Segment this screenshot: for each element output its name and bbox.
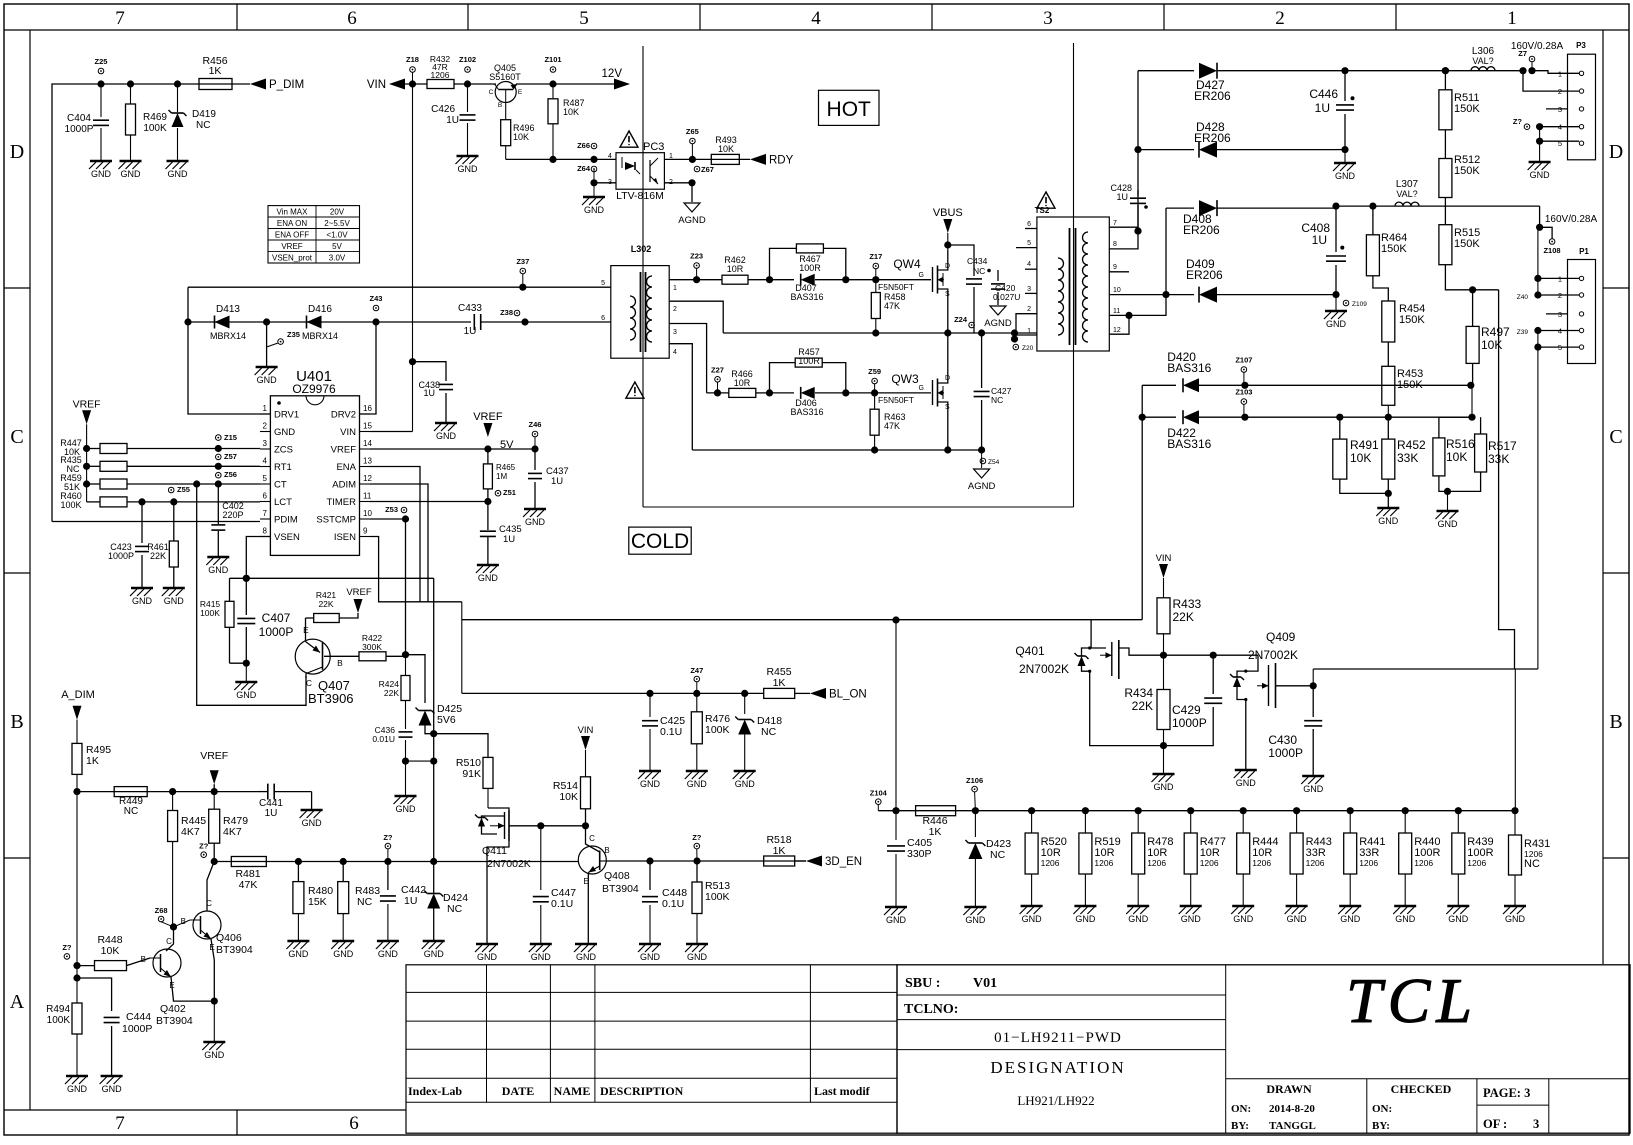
svg-text:5V: 5V <box>332 242 342 251</box>
svg-text:1K: 1K <box>929 826 942 838</box>
svg-text:5: 5 <box>601 280 605 287</box>
svg-text:VREF: VREF <box>331 445 357 456</box>
svg-text:2N7002K: 2N7002K <box>1019 662 1069 676</box>
power VBUS arrow <box>943 219 952 233</box>
warning triangle TS2 <box>1037 192 1055 208</box>
pin 12 ADIM <box>360 483 371 485</box>
svg-text:A: A <box>10 991 25 1013</box>
wire VIN down to U401 pin15 <box>412 84 414 432</box>
ground C447 <box>530 943 552 946</box>
svg-text:ER206: ER206 <box>1183 223 1220 237</box>
wire Q408 base rail <box>606 860 806 862</box>
svg-text:10K: 10K <box>559 791 578 803</box>
svg-text:3: 3 <box>673 329 677 336</box>
svg-text:Z106: Z106 <box>966 776 983 785</box>
transistor Q402 BT3904 <box>153 949 181 977</box>
wire Q407 base to R422 <box>324 655 359 657</box>
pin 9 ISEN <box>360 536 371 538</box>
svg-text:B: B <box>10 711 23 733</box>
svg-text:NC: NC <box>357 896 373 908</box>
svg-text:4K7: 4K7 <box>181 826 200 838</box>
svg-text:GND: GND <box>1335 171 1356 181</box>
resistor R454 <box>1382 301 1395 342</box>
svg-text:4: 4 <box>263 457 268 466</box>
svg-text:AGND: AGND <box>678 215 706 226</box>
svg-text:22K: 22K <box>1132 699 1153 713</box>
svg-text:Z7: Z7 <box>1518 49 1527 58</box>
svg-text:C: C <box>10 426 23 448</box>
node Z107 <box>1241 367 1247 373</box>
net 3D_EN <box>806 856 822 867</box>
svg-text:VAL?: VAL? <box>1396 189 1417 199</box>
ground R461 <box>163 587 185 590</box>
border left label strip <box>29 30 31 1110</box>
svg-text:GND: GND <box>1233 914 1254 924</box>
capacitor C442 <box>387 862 389 891</box>
resistor R516 <box>1439 417 1472 438</box>
wire Q401 drain rail to Q409 gate <box>1164 654 1214 656</box>
capacitor C433 <box>473 314 475 330</box>
svg-text:GND: GND <box>478 573 499 583</box>
svg-text:4: 4 <box>673 349 677 356</box>
svg-text:3.0V: 3.0V <box>329 253 346 262</box>
svg-text:BAS316: BAS316 <box>1167 437 1211 451</box>
node Z108 <box>1549 239 1555 245</box>
wire ISEN pin9 <box>370 537 462 602</box>
svg-text:E: E <box>518 89 523 96</box>
svg-text:MBRX14: MBRX14 <box>302 331 338 341</box>
svg-text:1U: 1U <box>265 808 278 819</box>
svg-text:LCT: LCT <box>274 497 292 508</box>
svg-text:6: 6 <box>1027 221 1031 228</box>
capacitor C446 <box>1341 67 1348 74</box>
svg-text:SSTCMP: SSTCMP <box>316 515 356 526</box>
node Z47 <box>694 676 700 682</box>
svg-text:VBUS: VBUS <box>933 207 963 219</box>
transistor Q408 BT3904 <box>578 846 606 874</box>
wire VREF ladder vertical <box>86 424 88 502</box>
svg-text:300K: 300K <box>362 642 382 652</box>
svg-text:D413: D413 <box>216 304 240 315</box>
svg-text:150K: 150K <box>1454 165 1480 177</box>
wire TS2 pin11 out <box>1129 295 1166 316</box>
svg-text:14: 14 <box>363 439 372 448</box>
wire 160V second rail <box>1336 205 1540 207</box>
node Z59 <box>872 378 878 384</box>
svg-text:GND: GND <box>274 427 295 438</box>
wire CT to Q407 collector <box>197 484 306 705</box>
wire resonant rail <box>188 321 471 323</box>
svg-text:C407: C407 <box>262 611 291 625</box>
svg-text:R494: R494 <box>46 1004 70 1015</box>
analog ground C420 <box>990 306 1006 315</box>
connector P3 <box>1568 54 1596 160</box>
svg-text:1000P: 1000P <box>259 625 294 639</box>
svg-text:100K: 100K <box>200 608 220 618</box>
svg-text:5: 5 <box>579 8 589 29</box>
wire QW3 source rail <box>692 449 981 451</box>
resistor R478 <box>1137 811 1139 833</box>
svg-text:1: 1 <box>1507 8 1517 29</box>
inner frame bottom <box>30 1109 406 1111</box>
svg-text:22K: 22K <box>318 599 333 609</box>
resistor R456 <box>199 79 232 90</box>
node Z64 <box>591 166 597 172</box>
wire to R466 <box>707 392 729 394</box>
ground C430 <box>1302 775 1324 778</box>
resistor R497 <box>1472 290 1474 327</box>
svg-text:VIN: VIN <box>1156 553 1172 564</box>
wire Q401 source to bottom rail <box>1090 671 1164 745</box>
svg-text:NC: NC <box>973 266 985 276</box>
node Z24 <box>969 322 975 328</box>
capacitor C429 <box>1212 655 1214 694</box>
svg-text:BY:: BY: <box>1231 1120 1249 1132</box>
transformer TS2 <box>1037 217 1109 351</box>
wire PC3 pin1 to RDY <box>664 158 750 160</box>
HOT label box <box>819 90 880 125</box>
svg-text:1K: 1K <box>209 65 222 77</box>
svg-text:2: 2 <box>673 306 677 313</box>
svg-text:Z53: Z53 <box>385 505 398 514</box>
svg-text:0.027U: 0.027U <box>993 292 1020 302</box>
ground C404 <box>90 160 112 163</box>
wire C446 bottom rail <box>1336 149 1345 151</box>
wire OVP to Q409 drain route <box>1499 290 1515 669</box>
svg-text:GND: GND <box>378 949 399 959</box>
svg-text:DRAWN: DRAWN <box>1266 1082 1312 1096</box>
svg-text:1K: 1K <box>773 677 786 689</box>
svg-text:2: 2 <box>263 422 268 431</box>
svg-text:TS2: TS2 <box>1035 206 1050 215</box>
svg-text:11: 11 <box>363 492 372 501</box>
svg-text:6: 6 <box>601 315 605 322</box>
pin TS2-2 <box>1016 314 1037 333</box>
svg-text:10R: 10R <box>727 264 744 274</box>
svg-text:Z67: Z67 <box>701 165 714 174</box>
wire P3 pin1 <box>1532 71 1579 74</box>
pin TS2-10 <box>1109 294 1166 296</box>
pin 1 DRV1 <box>260 413 270 415</box>
svg-text:Z20: Z20 <box>1022 345 1034 352</box>
ground Z35 <box>256 366 278 369</box>
svg-text:B: B <box>337 658 343 668</box>
ground C442 <box>377 940 399 943</box>
ground C446 <box>1344 150 1346 162</box>
wire Q411 source down <box>487 841 509 943</box>
svg-text:NC: NC <box>991 395 1003 405</box>
svg-text:AGND: AGND <box>968 481 996 492</box>
svg-text:8: 8 <box>263 527 268 536</box>
svg-text:VREF: VREF <box>346 587 372 598</box>
wire D408 vertical <box>1165 208 1167 295</box>
ground Q401 R434 C429 <box>1163 746 1165 773</box>
svg-text:VREF: VREF <box>73 398 101 410</box>
svg-text:160V/0.28A: 160V/0.28A <box>1545 214 1598 225</box>
border bottom label strip line <box>4 1109 406 1111</box>
resistor R463 <box>874 393 876 409</box>
pin 7 PDIM <box>260 518 270 520</box>
diode D406 BAS316 <box>770 392 794 394</box>
svg-text:Z104: Z104 <box>870 789 888 798</box>
ground Q408 <box>575 943 597 946</box>
svg-text:D: D <box>10 141 24 163</box>
capacitor C438 <box>409 358 416 365</box>
svg-text:Z108: Z108 <box>1543 246 1560 255</box>
svg-text:4K7: 4K7 <box>223 826 242 838</box>
svg-text:7: 7 <box>115 1113 125 1134</box>
wire R445 to Q406 base <box>172 842 174 927</box>
wire Q402 emitter join <box>171 977 214 1001</box>
power VREF 5V arrow <box>483 423 492 437</box>
svg-text:1206: 1206 <box>1306 858 1325 868</box>
svg-text:GND: GND <box>477 952 498 962</box>
net P_DIM <box>250 79 266 90</box>
svg-text:12: 12 <box>1113 327 1121 334</box>
svg-text:1U: 1U <box>551 476 563 487</box>
wire D420 to R453 top <box>1245 384 1471 386</box>
wire ENA pin13 <box>370 467 420 602</box>
svg-text:SBU :: SBU : <box>905 976 940 991</box>
resistor R480 <box>297 862 299 882</box>
svg-text:R491: R491 <box>1350 438 1379 452</box>
transistor Q405 <box>495 82 516 103</box>
svg-text:Vin MAX: Vin MAX <box>277 208 309 217</box>
svg-text:Z107: Z107 <box>1235 356 1252 365</box>
svg-text:GND: GND <box>1378 516 1399 526</box>
wire P1 pin5 <box>1538 346 1579 348</box>
ground R516 <box>1437 510 1459 513</box>
ground R452 <box>1377 507 1399 510</box>
svg-text:GND: GND <box>396 804 417 814</box>
node Z68 <box>158 916 164 922</box>
isolation line through TS2 <box>1073 43 1075 507</box>
wire L302 pin5 rail <box>188 286 611 288</box>
svg-text:ENA OFF: ENA OFF <box>275 231 309 240</box>
svg-text:15K: 15K <box>308 896 327 908</box>
zener D425 5V6 <box>406 655 426 703</box>
row dividers right <box>1603 287 1629 289</box>
svg-text:Z55: Z55 <box>177 485 190 494</box>
resistor R431 <box>1514 811 1516 835</box>
node Z37 <box>520 268 526 274</box>
ground P3 <box>1529 161 1551 164</box>
wire R432 to Q405 <box>454 83 496 85</box>
svg-text:VAL?: VAL? <box>1472 56 1493 66</box>
svg-text:1U: 1U <box>404 895 417 907</box>
capacitor C437 <box>534 449 536 470</box>
capacitor C426 <box>467 84 469 112</box>
resistor R496 <box>505 104 507 120</box>
node Z27 <box>715 377 721 383</box>
svg-text:S5160T: S5160T <box>489 72 521 82</box>
capacitor C434 <box>948 245 974 276</box>
wire A_DIM lower vertical <box>76 792 78 1003</box>
svg-text:P1: P1 <box>1579 247 1589 256</box>
svg-text:0.01U: 0.01U <box>372 734 395 744</box>
capacitor C402 <box>217 484 219 524</box>
ground R494 <box>66 1075 88 1078</box>
svg-text:Q409: Q409 <box>1266 630 1296 644</box>
pin 15 VIN <box>360 431 371 433</box>
svg-text:ER206: ER206 <box>1186 268 1223 282</box>
svg-text:Z46: Z46 <box>529 420 542 429</box>
svg-text:11: 11 <box>1113 308 1120 315</box>
capacitor C408 <box>1332 203 1339 210</box>
svg-text:QW4: QW4 <box>893 257 921 271</box>
resistor R448 <box>95 961 127 971</box>
svg-text:2~5.5V: 2~5.5V <box>324 219 350 228</box>
svg-text:OZ9976: OZ9976 <box>292 382 336 396</box>
svg-text:10K: 10K <box>1350 451 1371 465</box>
svg-text:GND: GND <box>965 915 986 925</box>
column dividers bottom <box>236 1110 238 1135</box>
svg-text:R516: R516 <box>1446 437 1475 451</box>
resistor R481 <box>231 857 266 867</box>
wire P3 pin5 <box>1540 140 1579 142</box>
ground Q411 <box>476 943 498 946</box>
svg-text:1000P: 1000P <box>1268 746 1303 760</box>
svg-text:10R: 10R <box>734 378 751 388</box>
svg-text:100K: 100K <box>705 891 730 903</box>
resistor R452 <box>1387 417 1389 439</box>
svg-text:MBRX14: MBRX14 <box>210 331 246 341</box>
wire P3 pin3 NC <box>1546 108 1568 110</box>
svg-text:P3: P3 <box>1576 41 1586 50</box>
svg-text:V01: V01 <box>973 976 997 991</box>
svg-text:10K: 10K <box>101 945 120 957</box>
svg-text:GND: GND <box>168 169 189 179</box>
svg-text:1206: 1206 <box>1467 858 1486 868</box>
node Z23 <box>694 263 700 269</box>
net 12V arrow <box>614 79 630 90</box>
ground R478 <box>1127 905 1149 908</box>
svg-text:10K: 10K <box>563 107 579 117</box>
capacitor C425 <box>649 693 651 717</box>
wire P1 pin4 <box>1538 330 1579 332</box>
svg-text:B: B <box>604 846 609 855</box>
wire Q408 emitter to GND <box>587 873 589 944</box>
svg-text:1206: 1206 <box>1147 858 1166 868</box>
ground C408 <box>1335 295 1337 310</box>
svg-text:C433: C433 <box>458 303 482 314</box>
svg-text:12: 12 <box>363 474 372 483</box>
node Z7 <box>1529 56 1535 62</box>
wire base rail <box>214 861 578 863</box>
wire R491 R452 to GND <box>1340 479 1389 493</box>
resistor R483 <box>342 862 344 882</box>
svg-text:0.1U: 0.1U <box>660 726 682 738</box>
wire P_DIM rail <box>52 84 232 522</box>
svg-text:R434: R434 <box>1124 686 1153 700</box>
transistor Q407 BT3906 <box>295 639 330 674</box>
svg-text:QW3: QW3 <box>891 372 919 386</box>
svg-text:ON:: ON: <box>1372 1103 1392 1115</box>
svg-text:Z37: Z37 <box>516 257 529 266</box>
svg-text:GND: GND <box>1395 914 1416 924</box>
svg-text:BL_ON: BL_ON <box>829 688 867 700</box>
node Z101 <box>550 67 556 73</box>
resistor R445 <box>172 792 174 811</box>
svg-text:91K: 91K <box>462 768 481 780</box>
ground D424 <box>423 940 445 943</box>
pin 5 CT <box>260 483 270 485</box>
resistor R462 <box>722 275 748 284</box>
wire VIN to R433 <box>1163 578 1165 598</box>
svg-text:C404: C404 <box>67 113 91 124</box>
svg-text:GND: GND <box>1022 914 1043 924</box>
svg-text:NC: NC <box>196 120 210 131</box>
svg-text:Z38: Z38 <box>500 308 513 317</box>
svg-text:VREF: VREF <box>473 411 503 423</box>
resistor R441 <box>1349 811 1351 833</box>
wire SSTCMP pin10 down <box>370 518 406 520</box>
resistor R447 <box>83 445 90 452</box>
resistor R459 <box>83 480 90 487</box>
pin 2 GND <box>260 431 270 433</box>
ground R415 C407 <box>235 681 257 684</box>
node Z35 <box>263 318 270 325</box>
resistor R517 <box>1480 417 1482 434</box>
resistor R435 <box>83 463 90 470</box>
svg-text:10: 10 <box>1113 287 1121 294</box>
svg-text:PDIM: PDIM <box>274 515 298 526</box>
svg-text:3: 3 <box>1027 286 1031 293</box>
svg-text:1U: 1U <box>446 115 459 126</box>
resistor R466 <box>729 388 756 397</box>
svg-text:RT1: RT1 <box>274 462 292 473</box>
svg-text:GND: GND <box>436 431 457 441</box>
svg-text:47K: 47K <box>884 421 900 431</box>
wire 160V to P1 <box>1537 227 1539 295</box>
svg-text:9: 9 <box>363 527 368 536</box>
MOSFET Q411 2N7002K <box>487 788 489 808</box>
column dividers top <box>236 4 238 30</box>
wire R464 to R454 <box>1373 276 1388 301</box>
node Z65 <box>690 138 696 144</box>
analog ground AGND PC3 <box>684 203 700 212</box>
resistor R511 <box>1442 67 1449 74</box>
svg-text:BAS316: BAS316 <box>1167 361 1211 375</box>
svg-text:1M: 1M <box>496 472 507 481</box>
svg-text:1206: 1206 <box>1359 858 1378 868</box>
ground R441 <box>1339 905 1361 908</box>
svg-text:4: 4 <box>608 153 612 160</box>
svg-text:BT3906: BT3906 <box>308 691 354 706</box>
diode D407 BAS316 <box>770 279 794 281</box>
svg-text:100R: 100R <box>799 263 821 273</box>
wire BL_ON gate branch down <box>895 620 897 811</box>
isolation line horizontal <box>643 506 1074 508</box>
svg-text:Z47: Z47 <box>690 666 703 675</box>
capacitor C448 <box>649 861 651 890</box>
ground D423 <box>964 906 986 909</box>
resistor R479 <box>213 792 215 810</box>
svg-text:P_DIM: P_DIM <box>269 79 304 91</box>
ground R519 <box>1074 905 1096 908</box>
resistor R494 <box>72 1003 82 1034</box>
wire Q405 emitter to 12V <box>516 83 628 85</box>
svg-text:Z54: Z54 <box>988 459 1000 466</box>
node Z66 <box>591 143 597 149</box>
ground C402 <box>207 556 229 559</box>
node Z25 <box>98 68 104 74</box>
diode D408 ER206 <box>1199 200 1217 216</box>
resistor R440 <box>1404 811 1406 833</box>
svg-text:1: 1 <box>673 285 677 292</box>
transformer L302 <box>611 266 669 359</box>
wire R515 bottom <box>1445 265 1498 290</box>
